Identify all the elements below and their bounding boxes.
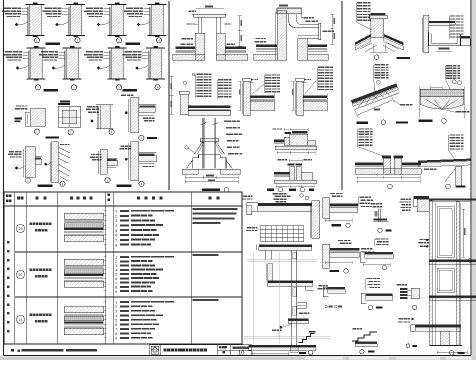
wall flashing detail 2-4: leader annotation block (125, 51, 132, 52)
svg-text:7: 7 (115, 239, 117, 243)
svg-text:9: 9 (115, 290, 117, 294)
R6 eave: left leader (424, 169, 429, 170)
H1 roof curb detail: caps (285, 132, 292, 134)
detail B2: right leaders (361, 248, 366, 249)
R4 vault slab: insulation band (420, 89, 464, 96)
wall flashing detail 1-1: leader annotation block (4, 8, 11, 9)
R4 vault slab: extension lines (418, 87, 420, 119)
svg-text:8: 8 (115, 332, 117, 336)
table header: construction method (137, 197, 140, 200)
detail B1: leaders above (330, 193, 335, 194)
section A: mid landing slab (288, 319, 308, 321)
title block name text (164, 348, 167, 351)
svg-text:1: 1 (115, 210, 117, 214)
wall detail row1 #4 number bubble (156, 38, 161, 43)
svg-text:6: 6 (115, 323, 117, 327)
R5 flat joint: right roof layers (402, 162, 421, 164)
H1 roof curb detail: ground band (275, 146, 317, 149)
wall flashing detail 1-4: leader annotation block (126, 8, 133, 9)
detail B4: dim below (363, 264, 390, 266)
R1 ridge joint: left sloped roof layers (355, 34, 371, 45)
table row 20: construction diagram (64, 259, 104, 265)
R4 vault slab: leader stack (446, 65, 452, 66)
table row 20: layer ticks (104, 256, 107, 258)
R4 vault slab: top dim bracket (431, 86, 442, 88)
title block box (149, 345, 251, 356)
parapet joint detail: left roof layers (176, 47, 196, 49)
svg-text:10: 10 (238, 351, 244, 357)
section A: leader dots mid (280, 326, 283, 329)
table row 20 remarks (193, 254, 219, 256)
wall flashing detail 2-1: sealant dot leader (16, 67, 19, 70)
H1 roof curb detail: left roof layers (274, 140, 284, 142)
section A: railing grid (260, 225, 304, 227)
section A ground dim line (252, 352, 288, 354)
R4 vault slab: hatched vault with arc (420, 97, 464, 109)
parapet joint detail: right roof layers (225, 47, 246, 49)
wall flashing detail 1-1: sealant dot leader (15, 23, 18, 26)
detail E4 number bubble (139, 181, 144, 186)
wall flashing detail 1-4: bottom cap (148, 35, 167, 37)
wall flashing detail 1-2: leader annotation block (45, 8, 52, 9)
parapet joint detail: right post (216, 17, 218, 33)
roof edge detail: roof layers (188, 106, 231, 109)
wall detail row2 #2 number bubble (71, 85, 76, 90)
wall flashing detail 2-4: sealant dot leader (136, 67, 139, 70)
wall flashing detail 1-2: sealant dot leader (56, 23, 59, 26)
table row 20: number bubble (16, 270, 24, 278)
section C base dim line (437, 351, 467, 353)
H2 joint curb detail: ground band (274, 180, 317, 183)
svg-text:4: 4 (115, 224, 117, 228)
parapet joint detail: leader texts (189, 11, 192, 12)
R3 sloped roof: dim line with arrows (357, 100, 393, 116)
wall detail row2 #4 number bubble (155, 85, 160, 90)
detail D1 corner flashing (16, 105, 21, 106)
overflow parapet: duct lower line and end cap (298, 38, 319, 40)
overflow parapet: lower wall (298, 39, 308, 60)
section C: bay panel mid (437, 268, 454, 293)
wall flashing detail 1-1: hatched wall column (30, 5, 42, 36)
detail D4 caption (147, 137, 157, 139)
wall flashing detail 2-4: bottom cap (146, 78, 165, 80)
sheet right border (470, 0, 472, 356)
table row 19: name text (30, 223, 33, 226)
detail D2 number bubble (68, 130, 73, 135)
H1 roof curb detail: curb blocks (290, 134, 308, 145)
section A: wall base (290, 346, 298, 352)
detail B2: dim below (325, 262, 352, 264)
wall flashing detail 2-1: top cap (27, 47, 46, 49)
wall flashing detail 1-2: bottom cap (66, 35, 85, 37)
R2 gutter: top slab (429, 21, 456, 23)
wall detail row2 #3 number bubble (116, 85, 121, 90)
wall flashing detail 1-3: hatched wall column (112, 5, 124, 36)
svg-text:20: 20 (19, 273, 23, 277)
svg-text:21: 21 (19, 318, 23, 322)
row2 caption left (44, 89, 59, 91)
right grey screen strip (472, 0, 476, 360)
section C: cornice leader bars (401, 199, 405, 200)
overflow parapet: cap slab (277, 8, 302, 14)
divider line between middle and right detail columns (341, 1, 343, 190)
vent pipe: caption (202, 189, 220, 191)
detail B1: dim below (325, 219, 352, 221)
row1 caption left (46, 43, 61, 45)
section A: wall storey 2 (268, 264, 273, 281)
overflow parapet: leaders (256, 38, 260, 39)
R3 sloped roof: leader stack (375, 64, 381, 65)
H2 joint curb detail: dims above (289, 160, 302, 162)
wall flashing detail 2-4: facing strip (147, 51, 149, 80)
overflow parapet: right roof layers (308, 45, 328, 47)
overflow parapet: wall with cap (277, 10, 287, 60)
wall flashing detail 1-1: facing strip (27, 7, 29, 36)
detail B3 caption (378, 228, 382, 232)
R2 gutter: channel (429, 32, 461, 46)
vent pipe: collar (200, 139, 218, 142)
R5 flat joint: ground band (355, 169, 421, 174)
detail D3 number bubble (109, 129, 114, 134)
table row 21: layer ticks (104, 301, 107, 303)
R3 caption (357, 122, 369, 124)
section C: lower leaders (399, 318, 404, 319)
detail E2 tall column with struts (52, 142, 59, 183)
detail B1: right leaders (360, 197, 365, 198)
section C: cornice profile (414, 196, 430, 199)
detail B2: wall (323, 244, 330, 268)
R3 sloped roof: striped roof band (351, 83, 398, 103)
section A: long wall lower (291, 250, 293, 346)
H detail captions (267, 189, 274, 191)
detail D2 caption (46, 136, 60, 138)
roof-to-wall detail: left dim (239, 81, 241, 110)
roof edge detail: parapet wall (179, 91, 189, 94)
wall flashing detail 2-1: facing strip (28, 51, 30, 80)
section A: balcony left downturn (247, 203, 258, 215)
H2 joint curb detail: caps (288, 163, 295, 165)
detail D1 number bubble (34, 129, 39, 134)
detail G caption (360, 349, 364, 353)
wall detail row2 #1 number bubble (35, 85, 40, 90)
wall flashing detail 2-1: hatched wall column (31, 48, 43, 79)
H2 joint curb detail: bottom dim (276, 185, 314, 187)
roof edge detail: dimension column (171, 76, 173, 114)
R5 flat joint: leader stack (359, 128, 365, 129)
section C: floor slab 2 (429, 295, 476, 297)
overflow parapet: curved duct elbow (289, 14, 319, 28)
section C: ground floor slab (415, 325, 461, 327)
table left column vertical label (7, 241, 9, 244)
section A: entry steps (299, 334, 315, 343)
detail B4: leaders (375, 238, 381, 239)
table header: layer (108, 194, 111, 197)
detail B2: roof layers (330, 248, 360, 251)
section A: floor slab 2 (259, 244, 312, 246)
sheet bottom border (4, 355, 472, 357)
detail B1: wall (323, 198, 330, 219)
parapet joint detail: cap slab (194, 14, 226, 17)
section C: middle leaders (419, 239, 423, 240)
vent pipe: left leader circle (185, 146, 188, 149)
section A: level construction lines (247, 259, 317, 261)
wall flashing detail 2-2: hatched wall column (67, 48, 79, 79)
detail E2 number bubble (60, 181, 65, 186)
wall flashing detail 1-4: facing strip (149, 7, 151, 36)
overflow parapet: right dim line (332, 14, 334, 44)
detail near C base caption (406, 344, 410, 348)
wall detail row1 #1 number bubble (34, 38, 39, 43)
H2 joint curb detail: right block (301, 172, 312, 180)
H1 roof curb detail: bottom dim (277, 152, 315, 154)
R1 ridge joint: right sloped roof layers (384, 34, 404, 45)
detail D1 caption (368, 305, 372, 309)
section C: caption (449, 351, 454, 356)
H1 roof curb detail: dims above (284, 129, 308, 131)
R5 flat joint: left roof layers (355, 162, 383, 164)
R2 gutter: right leader stack (450, 15, 456, 16)
table row separators (15, 251, 243, 253)
roof-to-wall detail: deck slab (303, 101, 327, 110)
wall flashing detail 2-4: hatched wall column (150, 48, 162, 79)
R4 vault slab: fan struts (426, 100, 442, 110)
detail F legend dots (325, 305, 328, 308)
section C small circ at floor1 (468, 259, 472, 263)
svg-text:2: 2 (115, 305, 117, 309)
wall flashing detail 2-3: leader annotation block (86, 51, 93, 52)
wall flashing detail 1-4: hatched wall column (152, 5, 164, 36)
detail E4 wall-slab junction (131, 142, 139, 181)
detail D4 wall-slab junction (131, 97, 139, 133)
R1 caption (374, 55, 379, 60)
wall flashing detail 1-1: top cap (26, 4, 45, 6)
detail E3 number bubble (105, 178, 110, 183)
R1 ridge joint: struts (360, 43, 372, 49)
section A: ground slab (249, 345, 316, 347)
section C: floor slab 1 (429, 259, 476, 261)
svg-text:2: 2 (115, 214, 117, 218)
detail B1: roof layers (330, 203, 358, 206)
svg-text:19: 19 (19, 227, 23, 231)
table row 21: construction diagram (64, 307, 104, 313)
parapet joint detail: right deck hatch (216, 54, 248, 60)
table note row text (11, 349, 14, 352)
wall flashing detail 1-3: bottom cap (108, 35, 127, 37)
roof-to-wall detail: leader stack (318, 67, 325, 68)
svg-text:1: 1 (115, 301, 117, 305)
svg-text:6: 6 (115, 234, 117, 238)
section C: right wall column (456, 201, 459, 345)
wall flashing detail 1-3: facing strip (109, 7, 111, 36)
table outer frame (4, 192, 242, 344)
wall flashing detail 1-2: facing strip (67, 7, 69, 36)
section A: wall below slab2 (264, 250, 266, 259)
section C: top roof band (429, 198, 476, 200)
roof-to-wall detail: deck slab (250, 101, 274, 110)
detail B4: stepped slab (365, 252, 394, 254)
roof-to-wall detail: left dim (292, 81, 294, 110)
H1 roof curb detail: right block (308, 141, 316, 146)
section A: floor slab 3 (268, 281, 313, 283)
table row 21: number bubble (16, 315, 24, 323)
table row 21: method text lines (120, 301, 129, 303)
section A: balcony slab (258, 206, 312, 212)
wall flashing detail 2-3: top cap (108, 47, 127, 49)
detail B3: flashing profile (377, 209, 379, 222)
vent pipe: lower dims (185, 176, 238, 178)
roof-to-wall detail: small left leaders (251, 79, 254, 80)
wall flashing detail 2-1: bottom cap (27, 78, 46, 80)
section A: caption (299, 352, 306, 354)
svg-text:9: 9 (115, 337, 117, 341)
table row 19: layer ticks (104, 210, 107, 212)
bottom grey screen strip (0, 357, 476, 360)
vent pipe: flashing flare (194, 142, 203, 155)
R6 eave: leader stack (450, 134, 456, 135)
wall flashing detail 2-2: sealant dot leader (52, 67, 55, 70)
section C: base footing (441, 331, 450, 345)
wall flashing detail 2-2: facing strip (64, 51, 66, 80)
detail E1 wall base (9, 151, 14, 152)
section C: left wall column (429, 201, 432, 346)
roof-to-wall detail: parapet wall (244, 81, 251, 116)
R1 ridge joint: dim (372, 44, 374, 52)
table header: name (36, 197, 39, 200)
R5 caption (388, 184, 393, 189)
table row 19: construction diagram (64, 213, 104, 219)
R3 sloped roof: right leader (400, 104, 405, 105)
wall flashing detail 2-3: facing strip (109, 51, 111, 80)
R3 sloped roof: lower chord and struts (355, 93, 400, 110)
section A: wall bracket (297, 303, 307, 309)
detail D3 wall section (87, 106, 92, 107)
R6 caption (446, 184, 451, 189)
detail D2: block pair (400, 288, 408, 290)
svg-text:4: 4 (115, 314, 117, 318)
detail E2 caption (38, 185, 53, 187)
section A: balcony roof band (258, 203, 312, 206)
wall flashing detail 2-2: bottom cap (63, 78, 82, 80)
table row 21 remarks (193, 299, 219, 301)
section A: top leader texts (243, 196, 247, 197)
wall flashing detail 2-1: leader annotation block (5, 51, 12, 52)
table header: construction sketch (70, 197, 73, 200)
bottom strip light segments (305, 357, 343, 359)
vent pipe: ground slab (182, 169, 198, 174)
table row 19: number bubble (16, 224, 24, 232)
R2 gutter: numbers below (438, 48, 449, 50)
overflow parapet: left roof layers (256, 45, 277, 47)
wall flashing detail 2-2: leader annotation block (41, 51, 48, 52)
wall flashing detail 2-3: sealant dot leader (97, 67, 100, 70)
svg-text:5: 5 (115, 319, 117, 323)
svg-text:3: 3 (115, 219, 117, 223)
R4 vault slab: leader circles (452, 80, 456, 84)
section A: axis lines (252, 252, 254, 344)
wall flashing detail 1-1: bottom cap (26, 35, 45, 37)
svg-text:3: 3 (115, 310, 117, 314)
detail D2 plan grid (60, 101, 70, 103)
table row 19 remarks (193, 208, 238, 210)
table row 21: name text (30, 314, 33, 317)
title block atlas diamond symbol (151, 346, 159, 354)
roof-to-wall detail: small left leaders (304, 79, 307, 80)
roof-to-wall detail: roof membrane layers (250, 96, 274, 99)
R2 gutter: right roof layers (461, 36, 471, 38)
parapet joint detail: right dimension line (239, 16, 241, 47)
detail D1: slab profile (366, 293, 393, 295)
section C: bay panel upper (437, 207, 454, 258)
roof-to-wall detail: leader stack (265, 74, 272, 75)
divider line between left and middle detail columns (168, 1, 170, 190)
R6 eave: slab (418, 159, 470, 163)
wall flashing detail 2-3: bottom cap (108, 78, 127, 80)
wall flashing detail 1-3: sealant dot leader (97, 23, 100, 26)
wall detail row1 #2 number bubble (75, 38, 80, 43)
parapet joint detail: left deck hatch (173, 54, 205, 60)
section C: right dim line (462, 209, 464, 257)
wall flashing detail 1-3: top cap (108, 4, 127, 6)
detail E3 wall base (91, 154, 95, 155)
R5 flat joint: dims below (357, 177, 420, 179)
R4 caption (418, 120, 432, 122)
parapet joint detail: left post (197, 17, 199, 33)
detail D2 caption (413, 305, 417, 309)
R5 flat joint: twin curb caps (382, 155, 391, 158)
wall flashing detail 2-4: top cap (146, 47, 165, 49)
wall flashing detail 2-2: top cap (63, 47, 82, 49)
section A: railing leader (247, 227, 251, 228)
parapet joint detail: top dim (196, 8, 224, 10)
detail F: mid flashing profile (319, 285, 323, 286)
detail D4 number bubble (139, 135, 144, 140)
detail B2 caption (330, 270, 340, 272)
section A: upper right wall (312, 201, 320, 238)
vent pipe: right leader texts (224, 120, 231, 121)
wall flashing detail 1-2: hatched wall column (70, 5, 82, 36)
R1 ridge joint: leader stack (357, 2, 363, 3)
sheet left border (3, 0, 5, 356)
wall detail row1 #3 number bubble (116, 38, 121, 43)
detail B3: leaders (371, 203, 376, 204)
wall flashing detail 2-3: hatched wall column (112, 48, 124, 79)
vent pipe: pipe walls (202, 118, 204, 169)
wall flashing detail 1-4: top cap (148, 4, 167, 6)
R5 flat joint: twin curbs (383, 158, 390, 174)
wall flashing detail 1-2: top cap (66, 4, 85, 6)
H2 joint curb detail: left roof layers (274, 172, 290, 174)
detail B2: leaders above (338, 240, 343, 241)
table column lines (14, 192, 16, 344)
detail E4 caption (117, 185, 132, 187)
table header: waterproof grade (6, 195, 9, 198)
table header: number (17, 197, 20, 200)
detail B1 caption (332, 224, 342, 226)
H2 joint curb detail: twin curbs (290, 167, 295, 180)
wall flashing detail 1-4: sealant dot leader (137, 23, 140, 26)
svg-text:8: 8 (115, 243, 117, 247)
title block atlas-no cell (219, 346, 222, 349)
table header separator (4, 205, 242, 207)
R4 vault slab: lower leader (455, 111, 461, 112)
R2 gutter: parapet wall (424, 15, 429, 53)
section A: lower construction lines (244, 336, 330, 338)
detail E1 number bubble (25, 178, 30, 183)
detail D1: leader stack (367, 278, 373, 279)
table row 20: name text (30, 269, 33, 272)
row2 caption right (123, 89, 138, 91)
table header: remarks (209, 197, 212, 200)
